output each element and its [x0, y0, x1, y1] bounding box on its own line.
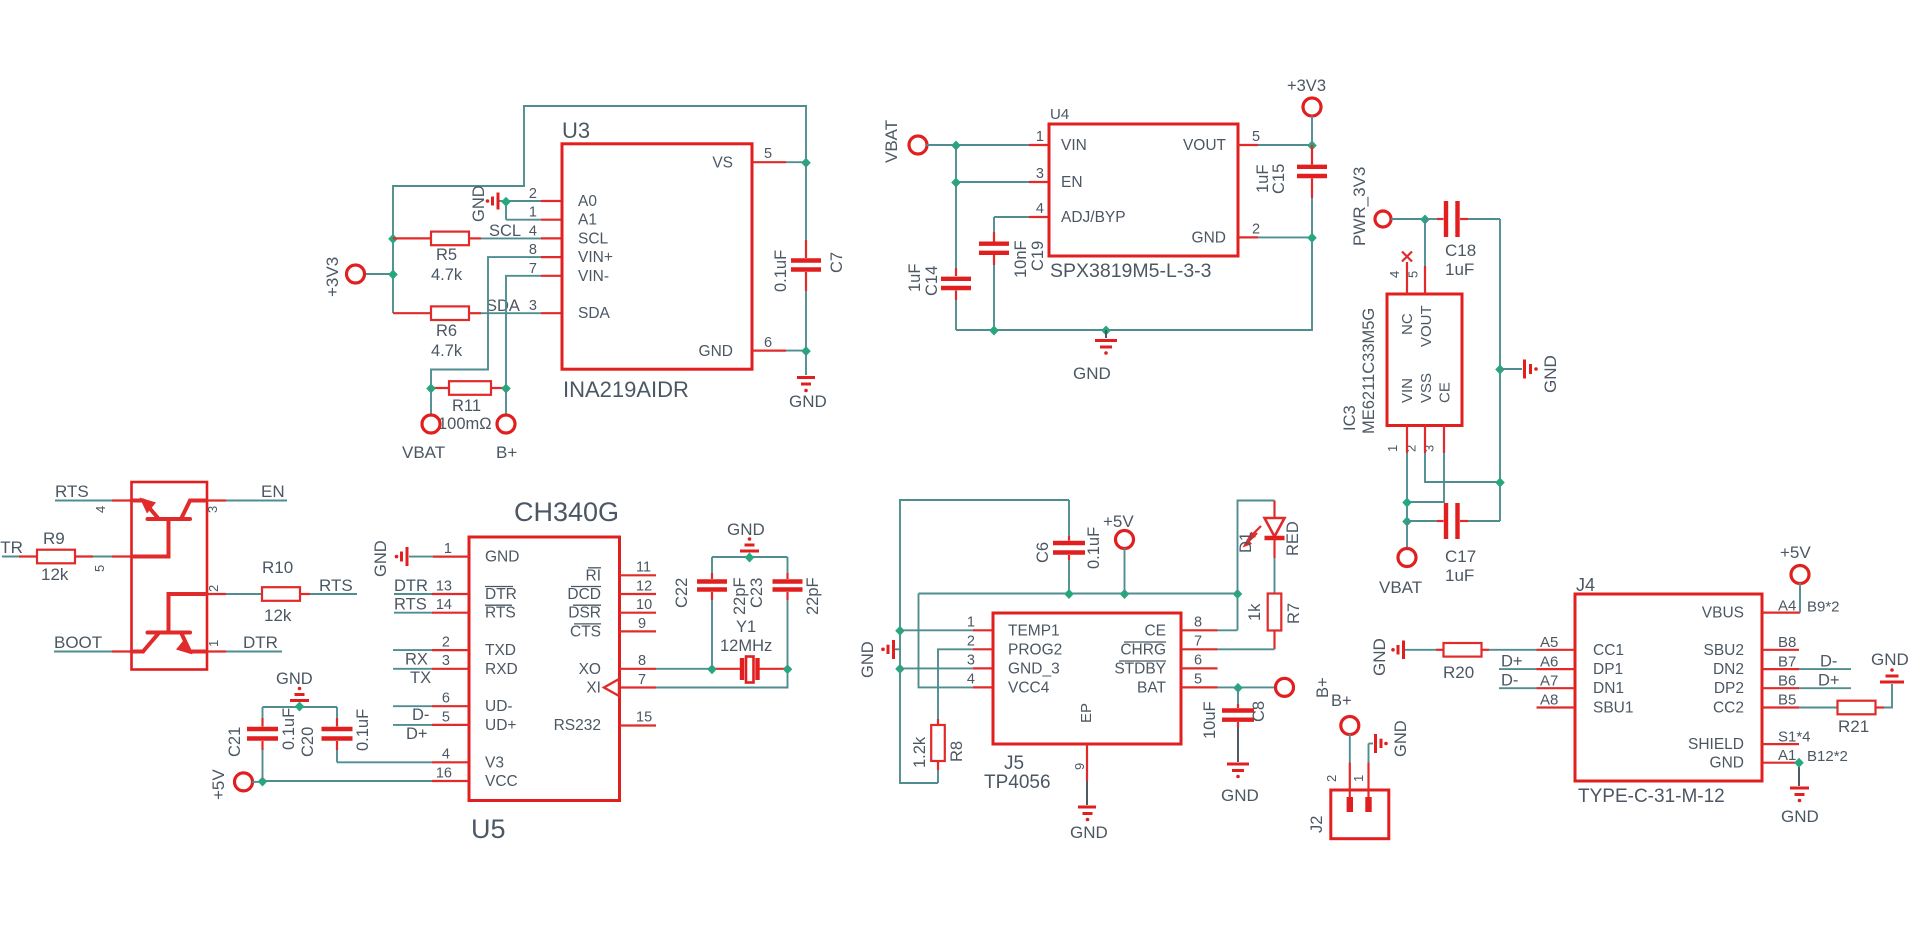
svg-text:B6: B6 [1778, 672, 1796, 689]
svg-text:12: 12 [636, 578, 652, 594]
ground GND above C21/C20 (inverted) [276, 670, 313, 701]
svg-text:R10: R10 [262, 558, 293, 577]
ground GND at pin1 [372, 540, 433, 577]
svg-text:GND: GND [859, 641, 877, 678]
svg-text:D-: D- [1820, 652, 1837, 670]
svg-text:C6: C6 [1034, 542, 1052, 563]
svg-text:C19: C19 [1029, 241, 1047, 271]
svg-text:A7: A7 [1540, 672, 1558, 689]
svg-text:9: 9 [638, 616, 646, 632]
svg-text:C17: C17 [1445, 547, 1476, 566]
svg-text:1: 1 [1036, 129, 1044, 145]
resistor R8 1.2k [911, 719, 966, 770]
svg-text:DP2: DP2 [1714, 680, 1744, 697]
wire VIN- pin7 down to R11 right [506, 276, 562, 388]
capacitor C7 0.1uF [772, 162, 846, 350]
op-amp U3 INA219AIDR box [529, 118, 772, 402]
capacitor C14 1uF [906, 182, 971, 330]
svg-text:GND: GND [1192, 229, 1226, 246]
ground GND below C7 [789, 351, 827, 411]
svg-text:3: 3 [205, 506, 220, 513]
svg-text:4: 4 [93, 506, 108, 513]
resistor R10 12k [262, 558, 310, 625]
wire SCL + net label SCL [481, 222, 541, 240]
svg-text:VIN+: VIN+ [578, 249, 613, 266]
svg-text:TP4056: TP4056 [984, 772, 1051, 793]
svg-text:GND: GND [1221, 786, 1259, 805]
capacitor C6 0.1uF [1034, 500, 1103, 594]
svg-text:DN1: DN1 [1593, 680, 1624, 697]
svg-text:A5: A5 [1540, 634, 1558, 651]
port VBAT (IC3 input) [1379, 521, 1422, 597]
wire caps top bus [263, 706, 338, 708]
wire A0 pin2 [506, 200, 562, 202]
pin number 2 [206, 585, 221, 592]
svg-text:6: 6 [1194, 652, 1202, 668]
svg-text:SCL: SCL [578, 230, 609, 247]
net label RX + pin2 TXD [393, 650, 469, 668]
svg-text:3: 3 [1422, 445, 1437, 452]
svg-text:CE: CE [1437, 382, 1454, 403]
svg-text:CH340G: CH340G [514, 497, 619, 527]
ground GND (J4 bottom) [1781, 788, 1819, 826]
port +5V (U5 supply) [209, 769, 263, 800]
wire GND pin6 [752, 350, 806, 352]
svg-text:GND: GND [789, 392, 827, 411]
svg-text:4: 4 [529, 223, 537, 239]
svg-text:GND: GND [1073, 364, 1111, 383]
svg-text:SBU1: SBU1 [1593, 700, 1634, 717]
svg-text:B7: B7 [1778, 653, 1796, 670]
connector J4 TYPE-C-31-M-12 box [1575, 575, 1762, 807]
svg-text:C15: C15 [1270, 164, 1288, 194]
svg-text:DTR: DTR [394, 577, 428, 595]
junction VS node [801, 158, 811, 168]
net label RTS (top left) + wire [55, 482, 132, 501]
svg-text:GND: GND [276, 670, 313, 688]
ground GND at J2 pin1 [1369, 720, 1411, 762]
ground GND center [1073, 330, 1117, 383]
svg-text:U3: U3 [562, 118, 590, 143]
svg-text:DTR: DTR [243, 633, 278, 652]
IC U5 CH340G box [436, 497, 652, 844]
svg-text:DTR: DTR [485, 586, 517, 603]
svg-text:INA219AIDR: INA219AIDR [563, 377, 689, 402]
svg-text:1: 1 [529, 205, 537, 221]
svg-text:CE: CE [1144, 622, 1166, 639]
svg-text:RX: RX [405, 651, 428, 669]
svg-text:J2: J2 [1308, 816, 1326, 833]
LED D1 RED [1237, 501, 1302, 594]
svg-text:STDBY: STDBY [1114, 660, 1166, 677]
ground GND below C8 [1221, 764, 1259, 805]
svg-text:4: 4 [442, 747, 450, 763]
svg-text:VCC: VCC [485, 773, 518, 790]
svg-text:D1: D1 [1237, 532, 1255, 553]
junction GND symbol tap [1101, 326, 1111, 336]
pin number 1 [206, 640, 221, 647]
net label D- + pin6 UD- [393, 706, 469, 724]
junction rail/GND_3 [895, 664, 905, 674]
svg-text:UD-: UD- [485, 698, 513, 715]
svg-text:B+: B+ [1314, 677, 1332, 698]
svg-text:B12*2: B12*2 [1807, 748, 1848, 765]
svg-text:10: 10 [636, 597, 652, 613]
capacitor C15 1uF [1254, 145, 1327, 237]
svg-text:4: 4 [1036, 201, 1044, 217]
net label D- + wire DN1 pin A7 [1499, 671, 1575, 689]
junction C6/bus [1064, 589, 1074, 599]
wire GND rail left [900, 500, 1069, 783]
svg-text:EN: EN [261, 482, 285, 501]
net label D- + wire DN2 pin B7 [1762, 652, 1851, 670]
svg-text:VOUT: VOUT [1183, 137, 1227, 154]
resistor R6 4.7k [393, 306, 481, 360]
wire TEMP1 pin1 [900, 629, 993, 631]
net label D+ + wire DP2 pin B6 [1762, 671, 1851, 689]
svg-text:8: 8 [529, 242, 537, 258]
svg-text:14: 14 [436, 597, 452, 613]
ground GND (R21, inverted) [1871, 650, 1909, 682]
wire VBAT to VIN [927, 144, 1050, 146]
resistor R9 12k [19, 529, 93, 584]
junction R5/+3V3 rail [388, 234, 398, 244]
crystal Y1 12MHz [712, 618, 788, 683]
svg-text:VSS: VSS [1418, 373, 1435, 403]
svg-text:1: 1 [1351, 775, 1366, 782]
capacitor C17 1uF [1407, 503, 1500, 585]
wire PROG2 pin2 to R8 [938, 649, 993, 719]
wire CE pin3 to VIN [1407, 426, 1444, 503]
svg-text:A0: A0 [578, 193, 597, 210]
wire A1 pin1 riser [506, 201, 562, 220]
pin 1 stub + net label DTR [207, 633, 282, 652]
svg-text:1k: 1k [1246, 603, 1264, 621]
junction caps/GND (C21 C20) [295, 702, 305, 712]
junction GND node [801, 346, 811, 356]
svg-text:ADJ/BYP: ADJ/BYP [1061, 209, 1126, 226]
wire R9 to pin5 [93, 556, 132, 558]
svg-text:7: 7 [638, 672, 646, 688]
svg-text:8: 8 [638, 653, 646, 669]
svg-text:R20: R20 [1443, 663, 1474, 682]
svg-text:SBU2: SBU2 [1704, 642, 1745, 659]
svg-text:0.1uF: 0.1uF [280, 708, 298, 750]
wire SCL pin4 stub [541, 237, 562, 239]
svg-text:VBAT: VBAT [402, 443, 445, 462]
svg-text:U4: U4 [1050, 106, 1069, 123]
regulator IC3 ME6211C33M5G box [1341, 271, 1462, 452]
ground GND at A0/A1 [470, 185, 506, 222]
resistor R7 1k [1246, 538, 1303, 649]
svg-text:J5: J5 [1004, 753, 1024, 774]
wire VIN+ pin8 down to R11 left [431, 257, 562, 388]
svg-text:2: 2 [206, 585, 221, 592]
pin number 4 [93, 506, 108, 513]
svg-text:PROG2: PROG2 [1008, 641, 1062, 658]
wire SDA pin3 stub [541, 312, 562, 314]
svg-text:CC1: CC1 [1593, 642, 1624, 659]
transistor Q top (emitter/base/collector) [132, 498, 206, 557]
svg-text:22pF: 22pF [804, 577, 822, 615]
ground GND above crystal (inverted) [727, 520, 765, 551]
svg-text:1: 1 [206, 640, 221, 647]
regulator U4 SPX3819M5-L-3-3 box [1036, 106, 1260, 282]
junction bus/LED/CE [1233, 589, 1243, 599]
svg-text:TEMP1: TEMP1 [1008, 622, 1060, 639]
pin XI input triangle [604, 679, 619, 696]
svg-text:2: 2 [529, 186, 537, 202]
junction R11 right [501, 384, 511, 394]
junction R11 left [426, 384, 436, 394]
svg-text:R8: R8 [948, 741, 966, 762]
svg-text:B5: B5 [1778, 692, 1796, 709]
svg-text:D+: D+ [1818, 671, 1840, 689]
ground GND (left rail) [859, 640, 900, 678]
svg-text:2: 2 [1252, 221, 1260, 237]
svg-text:16: 16 [436, 765, 452, 781]
svg-text:R21: R21 [1838, 717, 1869, 736]
wire PWR_3V3 to VOUT node [1391, 218, 1425, 220]
svg-text:0.1uF: 0.1uF [354, 709, 372, 751]
svg-text:A1: A1 [578, 212, 597, 229]
svg-text:4: 4 [1387, 271, 1402, 278]
junction +5V/C21 [258, 777, 268, 787]
capacitor C18 1uF [1425, 201, 1500, 279]
svg-text:10uF: 10uF [1201, 701, 1219, 739]
svg-text:5: 5 [442, 709, 450, 725]
wire XO pin8 to crystal [620, 668, 713, 670]
port +3V3 (U4 output) [1287, 77, 1326, 145]
wire GND rail right [1499, 219, 1501, 521]
resistor R5 4.7k [393, 232, 481, 284]
svg-text:GND: GND [1781, 807, 1819, 826]
wire crystal caps top bus [712, 556, 788, 558]
svg-text:C7: C7 [828, 252, 846, 273]
svg-text:9: 9 [1072, 763, 1087, 770]
svg-text:UD+: UD+ [485, 717, 516, 734]
svg-text:VBUS: VBUS [1702, 605, 1744, 622]
wire net +3V3 rail (port to pull-ups, up and over to VS) [364, 106, 806, 313]
svg-text:VIN: VIN [1399, 378, 1416, 403]
svg-text:6: 6 [442, 691, 450, 707]
svg-text:RTS: RTS [319, 576, 353, 595]
svg-text:CHRG: CHRG [1120, 641, 1166, 658]
svg-text:EN: EN [1061, 174, 1083, 191]
capacitor C22 22pF [673, 557, 749, 669]
svg-text:C18: C18 [1445, 241, 1476, 260]
pin 15 stub [620, 724, 657, 726]
junction C15/GND node [1307, 233, 1317, 243]
transistor Q bottom (base up to pin2, emitter to pin1, left to BOOT) [132, 594, 206, 655]
wire VS pin5 [752, 161, 806, 163]
svg-text:GND: GND [485, 549, 519, 566]
svg-text:+3V3: +3V3 [323, 257, 342, 297]
resistor R20 [1405, 643, 1489, 682]
svg-text:BOOT: BOOT [54, 633, 102, 652]
svg-text:B9*2: B9*2 [1807, 599, 1840, 616]
wire CC1 pin A5 [1489, 634, 1575, 651]
junction +5V/bus [1120, 589, 1130, 599]
svg-text:1uF: 1uF [1445, 260, 1474, 279]
svg-text:4: 4 [967, 671, 975, 687]
svg-text:13: 13 [436, 578, 452, 594]
svg-text:4.7k: 4.7k [431, 266, 463, 284]
svg-text:4.7k: 4.7k [431, 342, 463, 360]
svg-text:D-: D- [412, 706, 429, 724]
capacitor C21 0.1uF [226, 707, 298, 781]
junction crystal right [783, 664, 793, 674]
junction VSS/GND rail [1495, 478, 1505, 488]
svg-text:GND: GND [727, 520, 765, 539]
svg-text:5: 5 [92, 565, 107, 572]
junction VOUT node [1307, 141, 1317, 151]
junction VOUT node [1420, 215, 1430, 225]
pin STDBY stub [1181, 667, 1218, 669]
svg-text:12k: 12k [264, 606, 292, 625]
svg-text:RTS: RTS [485, 605, 516, 622]
svg-text:R6: R6 [436, 322, 457, 340]
svg-text:RTS: RTS [394, 596, 427, 614]
capacitor C19 10nF [979, 232, 1047, 330]
ground GND (IC3 area) [1500, 355, 1560, 393]
svg-text:1: 1 [967, 614, 975, 630]
svg-text:TX: TX [410, 669, 431, 687]
pin number 5 [92, 565, 107, 572]
svg-text:DSR: DSR [568, 605, 601, 622]
pin SHIELD S1*4 stub [1762, 728, 1811, 745]
wire V3 pin4 from C20 [337, 761, 469, 763]
pin VCC4 stub [973, 686, 993, 688]
ground GND below EP [1070, 807, 1108, 842]
svg-text:NC: NC [1399, 313, 1416, 335]
svg-text:EP: EP [1078, 703, 1095, 723]
svg-text:GND: GND [372, 540, 390, 577]
svg-text:10nF: 10nF [1012, 240, 1030, 278]
pin EP (9) [1072, 744, 1087, 805]
svg-text:SDA: SDA [578, 305, 611, 322]
junction crystal left [707, 664, 717, 674]
svg-text:GND: GND [1710, 755, 1744, 772]
svg-text:R7: R7 [1285, 603, 1303, 624]
svg-text:D-: D- [1501, 671, 1518, 689]
svg-text:VOUT: VOUT [1418, 305, 1435, 347]
svg-text:0.1uF: 0.1uF [1085, 527, 1103, 569]
wire CE pin8 [1181, 629, 1238, 631]
wire VOUT pin5 [1238, 144, 1312, 146]
pin 2 stub [207, 593, 226, 595]
svg-text:CTS: CTS [570, 623, 601, 640]
svg-text:S1*4: S1*4 [1778, 728, 1811, 745]
svg-text:12MHz: 12MHz [720, 637, 772, 655]
svg-text:TYPE-C-31-M-12: TYPE-C-31-M-12 [1578, 786, 1725, 807]
svg-text:SPX3819M5-L-3-3: SPX3819M5-L-3-3 [1050, 260, 1212, 282]
port PWR_3V3 [1350, 167, 1391, 246]
net label D+ + pin5 UD+ [393, 725, 469, 743]
svg-text:D+: D+ [406, 725, 428, 743]
wire GND pin A1_B12*2 [1762, 747, 1848, 786]
svg-text:GND: GND [1070, 823, 1108, 842]
net label D+ + wire DP1 pin A6 [1499, 652, 1575, 670]
wire GND pin2 [1238, 236, 1312, 238]
junction rail/TEMP1 [895, 626, 905, 636]
wire XI pin7 to crystal [621, 669, 788, 688]
svg-text:IC3: IC3 [1341, 405, 1359, 431]
svg-text:R5: R5 [436, 246, 457, 264]
wire SDA + net label SDA [481, 297, 541, 315]
svg-text:A1: A1 [1778, 747, 1796, 764]
svg-text:2: 2 [967, 633, 975, 649]
svg-text:12k: 12k [41, 565, 69, 584]
svg-text:0.1uF: 0.1uF [772, 250, 790, 292]
svg-text:1uF: 1uF [906, 264, 924, 292]
svg-text:DTR: DTR [0, 538, 23, 557]
wire ADJ/BYP to C19 [994, 217, 1049, 232]
svg-text:RTS: RTS [55, 482, 89, 501]
svg-text:1: 1 [444, 541, 452, 557]
svg-text:GND: GND [1541, 355, 1560, 393]
svg-text:GND: GND [699, 343, 733, 360]
net label TX + pin3 RXD [393, 669, 469, 687]
svg-text:+5V: +5V [1780, 543, 1811, 562]
pin SBU2 B8 stub [1762, 634, 1799, 651]
junction VIN node [951, 141, 961, 151]
junction GND tap [1495, 365, 1505, 375]
svg-text:DN2: DN2 [1713, 661, 1744, 678]
svg-text:1uF: 1uF [1445, 566, 1474, 585]
svg-text:3: 3 [967, 652, 975, 668]
svg-text:R11: R11 [452, 397, 481, 415]
svg-text:8: 8 [1194, 614, 1202, 630]
svg-text:PWR_3V3: PWR_3V3 [1350, 167, 1369, 246]
pin VOUT riser [1424, 219, 1426, 294]
svg-text:C20: C20 [299, 727, 317, 757]
IC J5 TP4056 box [967, 613, 1202, 793]
pin NC with X mark [1402, 252, 1412, 295]
svg-text:D+: D+ [1501, 652, 1523, 670]
ground GND (R20) [1370, 638, 1404, 676]
svg-text:A8: A8 [1540, 692, 1558, 709]
wire CC2 pin B5 to R21 [1762, 692, 1838, 709]
svg-text:SDA: SDA [486, 297, 520, 315]
svg-text:3: 3 [1036, 166, 1044, 182]
wire ground bus bottom [956, 237, 1312, 330]
transistor pair outline box [132, 482, 208, 670]
wire R21 to GND [1884, 684, 1892, 708]
net label RTS + pin14 [394, 596, 469, 614]
resistor R21 [1838, 701, 1885, 736]
junction EN node [951, 178, 961, 188]
svg-text:11: 11 [636, 560, 651, 576]
port +3V3 [323, 257, 365, 297]
svg-text:RS232: RS232 [554, 717, 601, 734]
resistor R11 100mOhm [431, 381, 506, 433]
svg-text:100mΩ: 100mΩ [438, 415, 492, 433]
svg-text:GND: GND [1370, 638, 1389, 676]
svg-text:22pF: 22pF [731, 577, 749, 615]
junction caps/GND [745, 553, 755, 563]
wire pin2 to R10 [226, 593, 262, 595]
port VBAT (battery sense) [402, 388, 445, 462]
svg-text:XO: XO [579, 661, 601, 678]
junction BAT/C8 [1233, 683, 1243, 693]
svg-text:VCC4: VCC4 [1008, 679, 1050, 696]
wire VIN pin1 down [1406, 426, 1408, 522]
svg-text:+5V: +5V [209, 769, 228, 800]
svg-text:VIN: VIN [1061, 137, 1087, 154]
svg-text:U5: U5 [471, 814, 506, 844]
svg-text:SCL: SCL [489, 222, 521, 240]
